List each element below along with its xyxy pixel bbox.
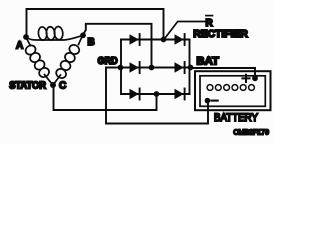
stator coil B-C bbox=[53, 35, 83, 85]
junction GRD rail bbox=[118, 65, 124, 71]
battery + terminal bbox=[252, 75, 258, 81]
battery outer box bbox=[195, 71, 271, 110]
wire A to rectifier top (row 1 node) bbox=[27, 9, 164, 40]
svg-text:BATTERY: BATTERY bbox=[214, 112, 258, 124]
rectifier row 2 wire bbox=[106, 67, 191, 69]
resistor callout R bbox=[164, 22, 206, 41]
label R overbar bbox=[206, 15, 213, 17]
svg-text:GRD: GRD bbox=[98, 56, 118, 67]
rectifier row 3 wire bbox=[121, 93, 190, 95]
node A bbox=[23, 34, 29, 40]
wire B to rectifier row 2 node bbox=[84, 24, 152, 68]
diode D5 (row3 left) bbox=[130, 89, 139, 99]
svg-text:C: C bbox=[59, 81, 66, 92]
diode D2 (row1 right) bbox=[175, 34, 184, 44]
rectifier row 1 wire bbox=[121, 39, 190, 41]
stator coil A-C bbox=[26, 37, 53, 85]
junction BAT rail bbox=[188, 65, 194, 71]
svg-text:RECTIFIER: RECTIFIER bbox=[193, 28, 248, 40]
svg-text:CMB2F179: CMB2F179 bbox=[233, 128, 269, 137]
battery inner box bbox=[200, 76, 265, 107]
GRD wire to battery negative bbox=[106, 68, 208, 124]
svg-text:STATOR: STATOR bbox=[9, 81, 46, 92]
rectifier left rail bbox=[120, 40, 122, 95]
battery - sign bbox=[211, 100, 217, 102]
node B bbox=[80, 32, 86, 38]
wire C to rectifier row 3 node bbox=[54, 86, 157, 110]
rectifier right rail bbox=[189, 40, 191, 95]
diode D1 (row1 left) bbox=[130, 34, 139, 44]
battery - terminal bbox=[205, 98, 211, 104]
svg-text:A: A bbox=[16, 40, 23, 51]
diode D6 (row3 right) bbox=[175, 89, 184, 99]
diode D4 (row2 right) bbox=[175, 62, 184, 72]
junction row3 mid bbox=[154, 91, 160, 97]
svg-text:BAT: BAT bbox=[196, 56, 219, 68]
battery cell caps bbox=[207, 85, 213, 91]
stator coil A-B bbox=[26, 35, 83, 40]
junction row2 mid bbox=[149, 65, 155, 71]
node C bbox=[50, 82, 56, 88]
junction row1 mid bbox=[161, 37, 167, 43]
svg-text:B: B bbox=[88, 37, 95, 48]
diode D3 (row2 left) bbox=[130, 62, 139, 72]
battery + sign bbox=[242, 75, 249, 82]
BAT wire to battery positive bbox=[191, 68, 256, 78]
